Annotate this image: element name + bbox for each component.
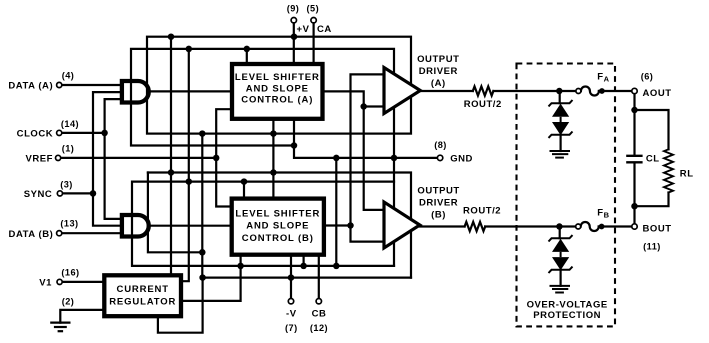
- wire: +V column below box A to GND line: [294, 121, 438, 158]
- junction ring A bottom at column x202: [199, 130, 206, 137]
- pin VREF (1) terminal: [56, 155, 61, 160]
- svg-text:OUTPUT: OUTPUT: [417, 54, 459, 65]
- junction bias line to GND drop: [333, 263, 340, 270]
- junction CLOCK line to column: [101, 130, 108, 137]
- svg-text:BOUT: BOUT: [643, 223, 672, 234]
- wire: AOUT load column with CL: [633, 91, 635, 155]
- junction feedback line to box B top: [241, 178, 248, 185]
- svg-text:AND SLOPE: AND SLOPE: [246, 83, 309, 94]
- junction fuse FA right terminal: [599, 88, 605, 94]
- junction clamp B tap: [556, 223, 563, 230]
- junction gate B loop at column x202: [199, 249, 206, 256]
- svg-text:(14): (14): [61, 119, 79, 129]
- wire: box B bottom stub to bias line: [303, 257, 305, 266]
- wire: ring top for channel B: [148, 173, 411, 278]
- svg-text:(13): (13): [60, 219, 78, 229]
- svg-text:CONTROL (B): CONTROL (B): [242, 233, 314, 244]
- pin AOUT (6) terminal: [632, 88, 637, 93]
- wire: DATA (B) input to gate U1b: [61, 232, 120, 234]
- ground symbol below clamp B: [550, 286, 571, 293]
- pin SYNC (3) terminal: [57, 191, 62, 196]
- wire: resistor A to fuse FA: [493, 90, 576, 92]
- capacitor CL plates: [626, 156, 642, 163]
- junction feedback line at column x189: [186, 178, 193, 185]
- wire: current regulator output riser: [183, 257, 241, 301]
- svg-text:GND: GND: [450, 153, 473, 164]
- wire: column x171 from +V rail down: [171, 37, 189, 282]
- wire: clamp A stem: [559, 91, 561, 103]
- svg-text:(5): (5): [307, 4, 320, 14]
- junction GND line drop x394: [391, 155, 398, 162]
- wire: driver B output to resistor: [420, 225, 465, 227]
- wire: clamp B stem: [559, 227, 561, 239]
- junction RL rejoin at BOUT column: [631, 203, 638, 210]
- pin GND (8) terminal: [437, 155, 442, 160]
- fuse FA squiggle: [581, 87, 599, 96]
- svg-text:SYNC: SYNC: [24, 189, 53, 200]
- pin BOUT (11) terminal: [632, 224, 637, 229]
- resistor RL: [664, 149, 673, 192]
- svg-text:CL: CL: [646, 153, 660, 164]
- junction GND line drop x336: [333, 155, 340, 162]
- junction L1 link to +V column: [291, 142, 298, 149]
- zener diode pair channel A: [549, 100, 573, 138]
- svg-text:VREF: VREF: [25, 154, 53, 165]
- pin V1 (16) terminal: [57, 279, 62, 284]
- wire: box A bottom to box B top column: [272, 121, 274, 197]
- wire: cross-couple column to driver B input 1: [364, 107, 384, 210]
- wire: fuse FB to BOUT pin: [599, 225, 632, 227]
- junction fuse FB right terminal: [599, 224, 605, 230]
- fuse FB squiggle: [581, 222, 599, 231]
- svg-text:ROUT/2: ROUT/2: [464, 99, 502, 110]
- svg-text:(8): (8): [434, 140, 447, 150]
- junction bias line to box B stub: [300, 263, 307, 270]
- wire: channel B ring left leg through gate B: [148, 173, 202, 253]
- svg-text:DRIVER: DRIVER: [419, 197, 458, 208]
- level shifter block A: [232, 64, 323, 119]
- svg-text:LEVEL SHIFTER: LEVEL SHIFTER: [235, 209, 320, 220]
- wire: driver A input 1 column from box B output: [351, 74, 385, 241]
- pin DATA (B) (13) terminal: [57, 231, 62, 236]
- svg-text:(A): (A): [431, 78, 446, 89]
- wire: CLOCK column feeding both gates: [105, 99, 120, 219]
- current regulator block: [104, 275, 181, 316]
- junction ring B top at box column x273: [270, 169, 277, 176]
- svg-text:LEVEL SHIFTER: LEVEL SHIFTER: [235, 72, 320, 83]
- svg-text:(16): (16): [61, 268, 79, 278]
- junction driver A input 2: [360, 103, 367, 110]
- fuse FB left terminal circle: [576, 224, 581, 229]
- svg-text:(B): (B): [431, 209, 446, 220]
- wire: +V pin drop to top rail and box A: [293, 22, 295, 62]
- pin DATA (A) (4) terminal: [57, 82, 62, 87]
- svg-text:(12): (12): [310, 323, 328, 333]
- svg-text:+V: +V: [297, 24, 310, 35]
- ground symbol at pin 2: [50, 323, 70, 332]
- wire: GND rail with left leg through gate A and L1 link to +V column: [131, 49, 394, 266]
- svg-text:DATA (A): DATA (A): [8, 81, 53, 92]
- AND gate U1a (channel A): [122, 81, 149, 103]
- wire: +V ring around channel A: [147, 37, 411, 134]
- wire: box B output: [326, 224, 351, 226]
- wire: CL to BOUT column: [633, 163, 635, 226]
- wire: CA pin drop to box A: [313, 22, 315, 62]
- wire: current regulator bottom loop: [158, 278, 203, 333]
- svg-text:V1: V1: [39, 278, 52, 289]
- wire: box B top input column: [243, 182, 245, 197]
- wire: resistor B to fuse FB: [485, 225, 576, 227]
- svg-text:(7): (7): [285, 323, 298, 333]
- wire: V1 pin to current regulator: [62, 281, 103, 283]
- pin CLOCK (14) terminal: [57, 130, 62, 135]
- wire: driver A output to AOUT: [420, 90, 473, 92]
- junction SYNC line to column: [90, 190, 97, 197]
- wire: pin 2 to ground: [60, 310, 102, 323]
- svg-text:PROTECTION: PROTECTION: [533, 310, 601, 321]
- pin -V (7) terminal: [288, 299, 293, 304]
- junction on GND rail to box A top: [244, 46, 251, 53]
- AND gate U1b (channel B): [122, 215, 149, 237]
- svg-text:AND SLOPE: AND SLOPE: [246, 221, 309, 232]
- svg-text:CONTROL (A): CONTROL (A): [241, 95, 313, 106]
- wire: SYNC pin to junction: [62, 192, 93, 194]
- svg-text:(1): (1): [62, 144, 75, 154]
- wire: CB pin column: [318, 257, 320, 299]
- fuse FA left terminal circle: [576, 89, 581, 94]
- wire: CLOCK pin to junction: [61, 132, 105, 134]
- junction -V rail to -V pin column: [288, 274, 295, 281]
- wire: VREF column to both level shifters: [216, 109, 231, 206]
- pin +V (9) terminal: [291, 18, 296, 23]
- junction VREF line to column x216: [213, 155, 220, 162]
- svg-text:(3): (3): [60, 180, 73, 190]
- svg-text:-V: -V: [286, 309, 297, 320]
- junction +V pin on top rail: [291, 33, 298, 40]
- wire: SYNC column feeding both gates: [93, 92, 120, 226]
- wire: VREF pin to junction column: [60, 157, 216, 159]
- wire: gate A output to box A: [150, 90, 231, 92]
- svg-text:(4): (4): [62, 71, 75, 81]
- pin CA (5) terminal: [311, 18, 316, 23]
- svg-text:OVER-VOLTAGE: OVER-VOLTAGE: [527, 299, 608, 310]
- wire: level shifter B feedback lower line: [132, 182, 394, 266]
- op-amp output driver A triangle: [384, 68, 420, 114]
- wire: -V pin column: [290, 257, 292, 299]
- over-voltage protection dashed box: [517, 64, 616, 327]
- wire: clamp A to protection ground: [559, 135, 561, 151]
- junction box B output to driver feeds: [347, 222, 354, 229]
- svg-text:RL: RL: [680, 168, 694, 179]
- junction ring A bottom at box column x273: [270, 130, 277, 137]
- svg-text:REGULATOR: REGULATOR: [109, 297, 176, 308]
- svg-text:CB: CB: [312, 309, 327, 320]
- wire: RL branch top: [635, 110, 669, 149]
- svg-text:AOUT: AOUT: [643, 88, 672, 99]
- resistor ROUT/2 channel A: [473, 86, 494, 95]
- svg-text:OUTPUT: OUTPUT: [417, 186, 459, 197]
- svg-text:DATA (B): DATA (B): [9, 229, 54, 240]
- junction AOUT load split: [631, 107, 638, 114]
- wire: gate B output to box B: [150, 225, 231, 227]
- svg-text:DRIVER: DRIVER: [419, 66, 458, 77]
- wire: box A output to driver A input 2: [325, 91, 385, 106]
- junction ring B top at column x171: [168, 169, 175, 176]
- svg-text:ROUT/2: ROUT/2: [463, 205, 501, 216]
- svg-text:CA: CA: [317, 24, 332, 35]
- wire: DATA (A) input to gate U1a: [61, 84, 120, 86]
- pin CB (12) terminal: [316, 299, 321, 304]
- wire: box A top input from GND rail: [246, 49, 248, 62]
- wire: column x202 bias link: [201, 134, 203, 278]
- junction bias line to regulator riser: [237, 263, 244, 270]
- junction on +V top rail at column x171: [168, 33, 175, 40]
- svg-text:CURRENT: CURRENT: [116, 284, 168, 295]
- op-amp output driver B triangle: [384, 202, 420, 248]
- svg-text:(2): (2): [62, 297, 75, 307]
- wire: RL branch bottom: [635, 193, 669, 207]
- resistor ROUT/2 channel B: [465, 222, 486, 231]
- junction clamp A tap: [556, 88, 563, 95]
- wire: fuse FA to AOUT pin: [599, 90, 632, 92]
- wire: -V bottom rail: [203, 277, 411, 279]
- svg-text:(9): (9): [287, 4, 300, 14]
- zener diode pair channel B: [549, 235, 573, 273]
- svg-text:CLOCK: CLOCK: [17, 128, 54, 139]
- ground symbol below clamp A: [550, 151, 571, 158]
- junction on GND rail at column x189: [186, 46, 193, 53]
- wire: GND drop to protection mid rail: [335, 158, 337, 266]
- junction -V rail to regulator loop: [199, 274, 206, 281]
- wire: clamp B to protection ground: [559, 270, 561, 286]
- svg-text:(6): (6): [641, 71, 654, 81]
- svg-text:(11): (11): [643, 241, 661, 251]
- level shifter block B: [232, 199, 324, 255]
